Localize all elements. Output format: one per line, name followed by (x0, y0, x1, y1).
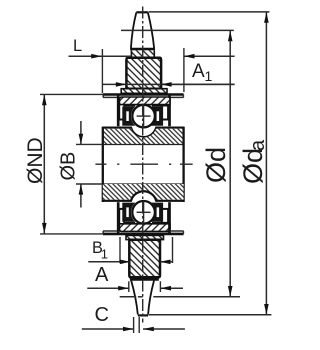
inner ring top shoulder line with raceway bite (103, 128, 184, 138)
extension line for B1 (outer ring right, down) (172, 237, 174, 263)
ØB dimension (58, 121, 103, 208)
bore (white) with horizontal centerline (95, 163, 192, 165)
dimension A1: right line and arrow (161, 82, 235, 87)
svg-text:a: a (247, 139, 269, 151)
top tooth profile (131, 12, 154, 49)
Ød dimension (201, 31, 233, 297)
body left face (top half) (117, 95, 120, 126)
bottom pedestal step (hatched) (126, 235, 164, 239)
bottom tooth profile (131, 281, 154, 316)
top tooth root line (130, 48, 155, 51)
outer ring right wall (top) (161, 105, 169, 120)
bearing outer ring top band (hatched) (120, 97, 171, 105)
svg-text:ØB: ØB (58, 152, 80, 181)
svg-text:L: L (73, 37, 82, 55)
top pedestal step (hatched) (121, 89, 167, 94)
svg-text:1: 1 (205, 68, 213, 84)
left seal shield (top bearing), black (122, 107, 135, 126)
svg-text:ØND: ØND (24, 137, 47, 184)
svg-text:Ød: Ød (201, 147, 231, 183)
body left face (bottom half) (117, 202, 120, 233)
bearing outer ring bottom band (hatched) (120, 223, 171, 231)
outer ring right wall (bottom) (161, 209, 169, 224)
tip extension line (top, for da) (149, 11, 270, 13)
inner ring bottom band (hatched) (103, 184, 184, 200)
vertical centerline (dash-dot) (142, 7, 144, 323)
inner ring top band (hatched) (103, 129, 184, 145)
dimension A (87, 264, 183, 291)
ball (top bearing) (132, 105, 155, 128)
dimension B1 (88, 239, 172, 264)
extension line: inner ring right face up (183, 48, 185, 92)
ball (bottom bearing) (132, 201, 155, 224)
inner ring left face (102, 127, 104, 202)
tip extension line (bottom, for da) (149, 314, 272, 316)
svg-text:A: A (192, 61, 205, 82)
body bottom face (103, 231, 184, 234)
outer ring left wall (bottom) (119, 209, 125, 224)
svg-text:A: A (95, 264, 109, 286)
inner ring right face (182, 127, 184, 202)
svg-text:1: 1 (101, 247, 108, 262)
outer ring left wall (top) (119, 105, 125, 120)
top neck (hatched) (131, 50, 154, 57)
top pitch line (121, 29, 234, 31)
bottom rim block (hatched) (129, 240, 160, 277)
body right face (bottom half) (168, 202, 171, 233)
body right face (top half) (168, 95, 171, 126)
bottom tooth root line (130, 278, 159, 281)
body top face (103, 95, 184, 98)
top rim block (hatched) (126, 58, 161, 89)
inner ring bottom shoulder line with raceway bite (103, 191, 184, 201)
Øda dimension (238, 12, 269, 315)
dimension A1: label (192, 61, 213, 84)
extension lines for A (block faces, down) (128, 281, 130, 292)
dimension L right arrow (at inner ring right face ext) (184, 54, 235, 59)
extension line: inner ring left face up (101, 49, 103, 93)
right seal shield (top bearing), black (150, 107, 163, 126)
right seal shield (bottom bearing), black (150, 203, 163, 222)
bottom pitch line (120, 296, 240, 298)
extension line for B1 (body lip left, down) (119, 237, 121, 263)
extension lines for C (133, 317, 135, 333)
svg-text:C: C (95, 304, 109, 326)
svg-text:Ød: Ød (238, 148, 268, 184)
ØND dimension (24, 94, 103, 234)
dimension L: line and arrow (69, 37, 132, 59)
dimension A1: left line and arrow (103, 82, 235, 87)
dimension C (82, 304, 185, 331)
left seal shield (bottom bearing), black (122, 203, 135, 222)
